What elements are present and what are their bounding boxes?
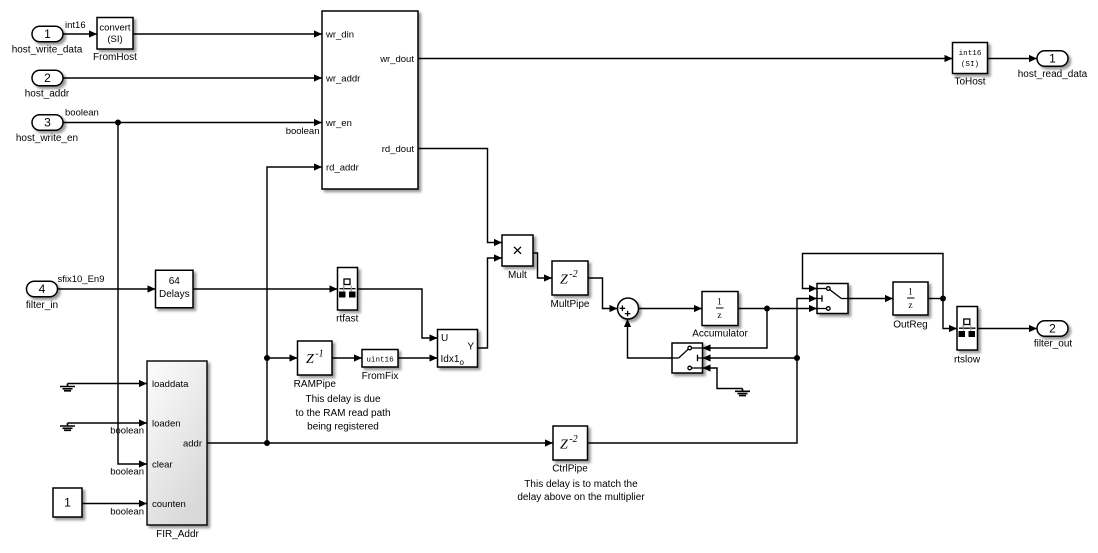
svg-text:boolean: boolean <box>286 126 320 137</box>
svg-text:RAMPipe: RAMPipe <box>294 379 337 390</box>
svg-text:wr_en: wr_en <box>325 118 352 129</box>
svg-text:FIR_Addr: FIR_Addr <box>156 529 199 540</box>
svg-text:host_write_data: host_write_data <box>12 44 83 55</box>
svg-text:(SI): (SI) <box>961 61 979 69</box>
svg-text:being registered: being registered <box>307 422 379 433</box>
svg-text:Y: Y <box>467 342 474 353</box>
svg-text:boolean: boolean <box>65 108 99 119</box>
svg-text:3: 3 <box>44 116 51 130</box>
svg-text:boolean: boolean <box>110 426 144 437</box>
svg-text:1: 1 <box>44 27 51 41</box>
svg-text:2: 2 <box>1049 322 1056 336</box>
svg-text:boolean: boolean <box>110 507 144 518</box>
svg-text:rtfast: rtfast <box>336 314 358 325</box>
svg-text:int16: int16 <box>65 20 86 31</box>
svg-text:OutReg: OutReg <box>893 320 927 331</box>
svg-text:z: z <box>908 301 912 311</box>
svg-text:FromHost: FromHost <box>93 52 137 63</box>
svg-text:2: 2 <box>44 71 51 85</box>
svg-text:U: U <box>441 333 448 344</box>
svg-text:convert: convert <box>99 23 131 34</box>
svg-text:CtrlPipe: CtrlPipe <box>552 464 588 475</box>
svg-text:wr_din: wr_din <box>325 30 354 41</box>
svg-text:4: 4 <box>39 282 46 296</box>
svg-text:1: 1 <box>717 298 722 308</box>
svg-text:FromFix: FromFix <box>362 371 399 382</box>
svg-text:uint16: uint16 <box>366 357 394 365</box>
svg-text:host_write_en: host_write_en <box>16 133 78 144</box>
svg-text:addr: addr <box>183 439 202 450</box>
svg-text:to the RAM read path: to the RAM read path <box>295 408 390 419</box>
svg-text:64: 64 <box>169 276 181 287</box>
svg-text:Accumulator: Accumulator <box>692 329 748 340</box>
svg-text:boolean: boolean <box>110 467 144 478</box>
svg-text:This delay is due: This delay is due <box>305 394 380 405</box>
svg-text:counten: counten <box>152 499 186 510</box>
svg-text:clear: clear <box>152 460 173 471</box>
svg-text:int16: int16 <box>959 50 982 58</box>
svg-text:wr_addr: wr_addr <box>325 74 360 85</box>
svg-text:Mult: Mult <box>508 270 527 281</box>
svg-text:rd_addr: rd_addr <box>326 163 359 174</box>
svg-text:1: 1 <box>1049 52 1056 66</box>
svg-text:filter_in: filter_in <box>26 300 58 311</box>
svg-text:This delay is to match the: This delay is to match the <box>524 479 638 490</box>
svg-text:rtslow: rtslow <box>954 355 981 366</box>
svg-text:loaden: loaden <box>152 419 181 430</box>
svg-text:MultPipe: MultPipe <box>551 299 590 310</box>
svg-text:loaddata: loaddata <box>152 379 189 390</box>
svg-text:Idx1: Idx1 <box>441 354 460 365</box>
svg-text:delay above on the multiplier: delay above on the multiplier <box>517 492 645 503</box>
svg-text:host_read_data: host_read_data <box>1018 69 1088 80</box>
svg-text:ToHost: ToHost <box>954 77 985 88</box>
svg-text:filter_out: filter_out <box>1034 338 1073 349</box>
svg-text:host_addr: host_addr <box>25 89 70 100</box>
svg-text:(SI): (SI) <box>107 34 122 45</box>
svg-text:wr_dout: wr_dout <box>379 54 414 65</box>
svg-text:1: 1 <box>64 496 71 510</box>
svg-text:1: 1 <box>908 288 913 298</box>
svg-text:sfix10_En9: sfix10_En9 <box>58 274 105 285</box>
svg-text:z: z <box>717 311 721 321</box>
svg-text:rd_dout: rd_dout <box>382 144 415 155</box>
svg-text:o: o <box>460 358 465 367</box>
svg-text:Delays: Delays <box>159 289 190 300</box>
